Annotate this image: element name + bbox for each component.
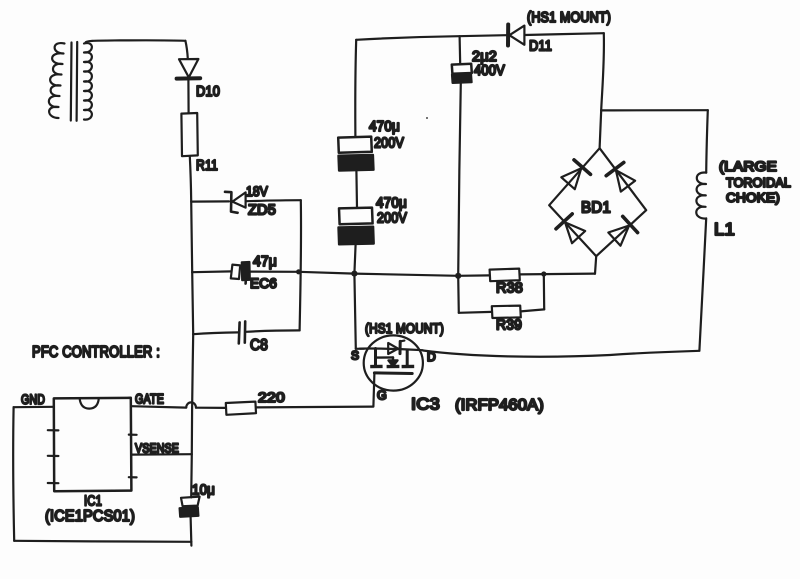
- svg-text:220: 220: [258, 389, 285, 405]
- wire R11 to ZD5 node and down to EC6 node: [190, 156, 192, 272]
- svg-text:(ICE1PCS01): (ICE1PCS01): [45, 508, 135, 525]
- svg-text:(HS1 MOUNT): (HS1 MOUNT): [365, 320, 444, 336]
- svg-text:47μ: 47μ: [253, 254, 277, 270]
- junction node EC6-bus: [296, 269, 301, 274]
- wire EC6 to junction: [250, 271, 299, 273]
- svg-text:R39: R39: [496, 318, 522, 334]
- junction node R39 right: [541, 271, 546, 276]
- junction node 470u-bus: [351, 271, 357, 277]
- wire 2u2 chain down to bus: [458, 83, 461, 276]
- wire hop over vertical: [186, 402, 196, 407]
- wire EC6 node down to C8 row: [192, 272, 193, 334]
- svg-text:470μ: 470μ: [369, 119, 400, 135]
- wire bridge bottom to bus: [595, 256, 596, 274]
- wire down to bridge top: [600, 110, 602, 148]
- svg-text:R11: R11: [196, 157, 218, 174]
- svg-text:(HS1 MOUNT): (HS1 MOUNT): [527, 10, 611, 26]
- svg-text:C8: C8: [250, 337, 268, 354]
- wire C8 right: [246, 330, 300, 331]
- svg-text:IC3: IC3: [411, 395, 440, 414]
- bridge diode bottom-right: [608, 216, 637, 245]
- wire GND bottom: [14, 541, 191, 542]
- wire R39 left stub: [457, 276, 460, 313]
- wire bottom right to drain: [423, 351, 699, 357]
- wire R38 to bridge-bottom junction: [520, 273, 595, 276]
- wire top right corner down: [601, 33, 604, 110]
- svg-text:10μ: 10μ: [192, 483, 215, 499]
- svg-text:BD1: BD1: [581, 200, 611, 217]
- pin tick IC1 right 1: [129, 434, 137, 436]
- svg-text:CHOKE): CHOKE): [726, 190, 780, 205]
- transistor IC3: [360, 335, 423, 390]
- capacitor C470a: [338, 137, 373, 171]
- inductor L1: [696, 172, 706, 218]
- wire ZD5 node to zener: [191, 200, 229, 202]
- svg-text:S: S: [351, 349, 359, 363]
- speck: [426, 117, 428, 119]
- transformer: [49, 42, 92, 121]
- capacitor C8: [239, 321, 245, 343]
- diode D11: [508, 25, 524, 46]
- IC IC1 body: [54, 398, 132, 491]
- zener diode ZD5: [225, 192, 246, 213]
- svg-text:200V: 200V: [377, 211, 407, 227]
- wire choke lead bottom: [699, 218, 706, 350]
- svg-text:200V: 200V: [374, 136, 404, 152]
- wire transformer top to D10: [86, 40, 186, 42]
- capacitor 10u: [180, 497, 200, 517]
- wire down to D10 anode: [185, 41, 187, 59]
- svg-text:D10: D10: [196, 83, 220, 100]
- wire gate lead: [373, 373, 374, 406]
- svg-text:D11: D11: [529, 38, 552, 55]
- wire vertical C8 row to 10u: [191, 334, 193, 497]
- bridge BD1 frame: [549, 148, 646, 256]
- pin tick IC1 left 2: [48, 455, 59, 457]
- resistor R39: [492, 306, 521, 318]
- svg-text:G: G: [377, 389, 387, 403]
- diode D10: [177, 59, 201, 79]
- svg-text:400V: 400V: [474, 63, 505, 79]
- svg-text:TOROIDAL: TOROIDAL: [726, 175, 791, 190]
- wire 470u chain top: [354, 40, 357, 137]
- wire R39 right stub up: [543, 274, 546, 309]
- bridge diode top-right: [606, 162, 635, 191]
- wire source lead from bus: [354, 274, 355, 349]
- wire D10 cathode to R11: [187, 79, 189, 113]
- resistor 220: [226, 402, 256, 415]
- wire R39 right lead: [521, 309, 544, 311]
- svg-text:R38: R38: [496, 281, 523, 297]
- capacitor EC6: [231, 262, 250, 284]
- wire source to mosfet: [356, 348, 364, 350]
- svg-text:(IRFP460A): (IRFP460A): [455, 397, 544, 414]
- wire bus EC6-junction to 470u-junction: [299, 272, 355, 274]
- wire 10u to bottom: [190, 517, 193, 546]
- svg-text:470μ: 470μ: [376, 196, 407, 212]
- wire D11 to top right corner: [525, 33, 604, 35]
- wire 470u chain to bus: [354, 244, 355, 273]
- wire right branch down to C8: [300, 200, 301, 330]
- wire choke lead top: [706, 110, 708, 172]
- svg-text:18V: 18V: [246, 183, 268, 199]
- wire ZD5 to right corner: [246, 200, 301, 201]
- capacitor C2u2: [452, 64, 472, 83]
- svg-text:L1: L1: [714, 219, 735, 239]
- svg-text:GND: GND: [21, 392, 45, 407]
- wire GND pin: [14, 406, 54, 409]
- resistor R11: [181, 113, 197, 156]
- bridge diode bottom-left: [556, 214, 585, 243]
- svg-text:EC6: EC6: [250, 275, 277, 291]
- wire 220 to gate of IC3: [256, 406, 373, 409]
- junction node 2u2-bus: [455, 273, 461, 279]
- svg-text:PFC CONTROLLER :: PFC CONTROLLER :: [32, 344, 160, 361]
- wire VSENSE pin: [131, 453, 191, 456]
- svg-text:D: D: [427, 350, 436, 364]
- bridge diode top-left: [561, 160, 590, 189]
- resistor R38: [490, 269, 520, 282]
- wire 2u2 chain top: [459, 36, 462, 64]
- wire GND left vertical: [12, 407, 15, 541]
- wire hop to 220: [196, 407, 226, 409]
- wire bus 470u-junction to 2u2-junction: [354, 274, 458, 276]
- svg-text:(LARGE: (LARGE: [719, 159, 777, 174]
- wire top bus left segment: [356, 35, 506, 40]
- wire C8 left: [193, 332, 238, 334]
- wire EC6 node to EC6: [192, 270, 231, 273]
- wire between 470u caps: [355, 171, 358, 208]
- wire bus 2u2-junction to R38: [458, 274, 489, 277]
- svg-text:ZD5: ZD5: [248, 203, 276, 219]
- wire R39 left lead: [459, 311, 492, 314]
- capacitor C470b: [338, 208, 373, 245]
- wire corner to choke top: [601, 109, 708, 111]
- pin tick IC1 right 2: [129, 476, 137, 478]
- pin tick IC1 left 3: [48, 482, 59, 484]
- svg-text:GATE: GATE: [135, 392, 164, 407]
- wire GATE pin to hop: [131, 406, 186, 407]
- pin tick IC1 left 1: [48, 429, 59, 431]
